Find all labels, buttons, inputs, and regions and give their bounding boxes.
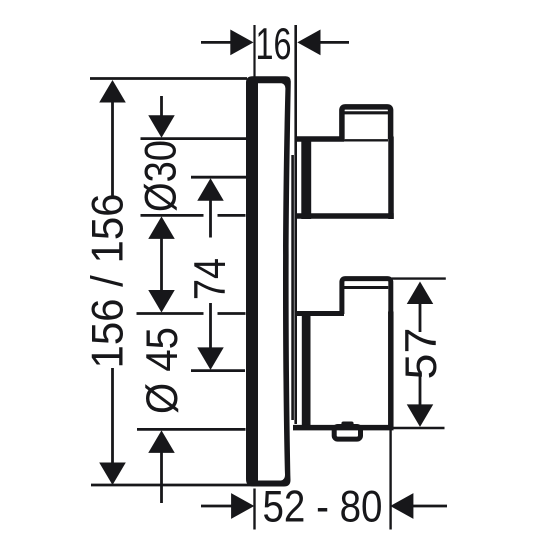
top handle body right edge: [388, 137, 394, 220]
extension line 16 left: [253, 25, 255, 77]
svg-text:Ø 45: Ø 45: [138, 327, 187, 414]
dim 52-80 left arrow tail: [201, 505, 233, 508]
dim 156 line lower segment: [111, 368, 114, 464]
dim 57 line upper segment: [419, 303, 422, 333]
lower handle safety-stop bump: [341, 422, 353, 429]
extension line 16 right (plate back face): [294, 25, 297, 424]
dim 16 left arrow: [230, 30, 253, 56]
dim 74 upper arrow: [197, 178, 224, 201]
escutcheon plate outer profile (filled): [246, 76, 291, 486]
dim O45 upper arrow: [148, 290, 175, 313]
lower handle grip inner line: [344, 286, 388, 289]
dim 57 upper boundary line: [391, 277, 445, 279]
dim 52-80 right extension line: [389, 429, 391, 530]
dim 57 upper arrow: [407, 282, 434, 305]
svg-text:Ø30: Ø30: [137, 140, 186, 212]
svg-text:52 - 80: 52 - 80: [263, 483, 383, 532]
top handle body top edge behind grip: [344, 139, 388, 141]
dim 16 right arrow tail: [319, 41, 349, 44]
plate top extension line: [90, 77, 247, 80]
top handle body left band: [301, 137, 311, 220]
escutcheon plate inner face (white cutout): [258, 83, 285, 480]
dim O30 upper boundary line: [141, 137, 247, 140]
dim 74 lower boundary line: [191, 369, 245, 372]
plate back rim line: [291, 155, 294, 420]
dim 74 line lower segment: [209, 303, 212, 350]
svg-text:74: 74: [186, 258, 235, 300]
top handle body bottom edge: [297, 213, 394, 219]
dim 74 line upper segment: [209, 200, 212, 238]
top handle grip inner line: [344, 111, 388, 114]
dim O45 lower arrow tail: [160, 452, 163, 503]
dim O30 upper arrow tail: [160, 96, 163, 116]
dim O30 lower boundary line seg2: [218, 214, 246, 217]
dim 57 lower arrow: [407, 404, 434, 427]
dim O30 lower arrow: [148, 216, 175, 239]
svg-text:156 / 156: 156 / 156: [84, 194, 133, 369]
dim O30 upper arrow: [148, 115, 175, 138]
dim 52-80 left extension line: [253, 489, 255, 530]
plate bottom extension line: [91, 484, 255, 487]
dim 16 left arrow tail: [201, 41, 232, 44]
dim O45 upper boundary line seg2: [218, 312, 246, 315]
dim 16 right arrow: [297, 30, 320, 56]
dim 52-80 right arrow tail: [412, 505, 448, 508]
dim O45 lower boundary line: [137, 428, 246, 431]
lower handle grip outline: [342, 279, 391, 314]
dim 156 top arrow: [99, 80, 126, 103]
dim 57 line lower segment: [419, 371, 422, 406]
lower handle body top edge: [296, 311, 345, 316]
dim O30 lower boundary line seg1: [141, 214, 204, 217]
svg-text:57: 57: [397, 328, 446, 380]
svg-text:16: 16: [256, 20, 292, 69]
dim 74 lower arrow: [197, 347, 224, 370]
top handle grip outline: [342, 107, 391, 139]
dim 57 lower boundary line: [390, 427, 445, 430]
dim 52-80 right arrow: [390, 493, 413, 519]
shared tail between O30 and O45 arrows: [160, 238, 163, 292]
lower handle body left band: [302, 311, 311, 428]
lower handle body bottom edge: [293, 425, 394, 431]
dim O45 upper boundary line seg1: [137, 312, 204, 315]
lower handle safety-stop tab: [334, 427, 360, 440]
dim 156 line upper segment: [111, 101, 114, 196]
dim 156 bottom arrow: [99, 463, 126, 486]
dim 74 upper boundary line: [191, 176, 246, 179]
dim 52-80 left arrow: [231, 493, 254, 519]
top handle body top edge: [296, 136, 345, 142]
dim O45 lower arrow: [148, 430, 175, 453]
lower handle body right edge: [388, 312, 394, 429]
